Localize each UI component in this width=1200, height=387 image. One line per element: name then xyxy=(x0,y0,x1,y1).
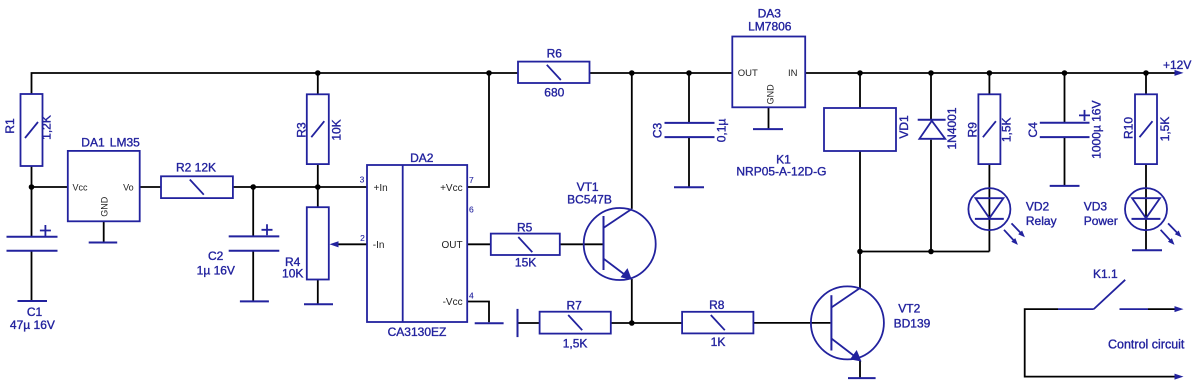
node VT1 collector on rail xyxy=(629,70,635,76)
node VD1 on rail xyxy=(928,70,934,76)
ground bar VT2 emitter xyxy=(848,377,876,379)
wire VT1 collector to rail xyxy=(631,73,633,209)
ground bar DA1 xyxy=(89,242,118,244)
svg-text:C4: C4 xyxy=(1026,122,1040,138)
wire +6V rail left segment xyxy=(32,73,519,94)
svg-text:1,5K: 1,5K xyxy=(1158,117,1172,142)
ground bar C2 xyxy=(240,300,269,302)
svg-text:VD1: VD1 xyxy=(897,115,911,139)
wire VD1 cathode to rail xyxy=(930,73,932,120)
svg-text:47µ 16V: 47µ 16V xyxy=(10,318,55,332)
wire node A to DA1 Vcc xyxy=(32,186,68,188)
wire R5 to VT1 base xyxy=(560,243,603,245)
wire DA2 pin4 to ground xyxy=(467,302,489,323)
op-amp DA2 body xyxy=(367,165,467,322)
svg-text:DA1: DA1 xyxy=(81,136,105,150)
node R3 top on rail xyxy=(315,70,321,76)
wire R2 to DA2 +In xyxy=(233,186,367,188)
svg-text:4: 4 xyxy=(469,290,474,300)
svg-text:7: 7 xyxy=(469,175,474,185)
wire C4 bottom to ground xyxy=(1064,137,1066,186)
svg-text:IN: IN xyxy=(788,68,798,79)
transistor VT2 xyxy=(811,286,884,361)
svg-text:R5: R5 xyxy=(517,221,533,235)
node C4 on rail xyxy=(1062,70,1068,76)
svg-text:1µ 16V: 1µ 16V xyxy=(197,263,235,277)
capacitor C1 xyxy=(7,225,58,251)
node R10 on rail xyxy=(1143,70,1149,76)
wire VT2 collector xyxy=(859,252,861,289)
node R3/R4 divider xyxy=(315,184,321,190)
resistor R7 xyxy=(540,312,611,334)
svg-text:+12V: +12V xyxy=(1163,58,1191,72)
svg-text:DA3: DA3 xyxy=(758,7,782,21)
svg-text:Control circuit: Control circuit xyxy=(1108,337,1185,351)
potentiometer R4 xyxy=(307,207,329,279)
resistor R3 xyxy=(307,94,329,164)
arrow K1.1 top lead xyxy=(1175,306,1184,312)
wire K1 top to rail xyxy=(859,73,861,108)
wire K1.1 contact left and lower loop xyxy=(1025,309,1176,377)
svg-text:10K: 10K xyxy=(282,267,303,281)
svg-text:1000µ 16V: 1000µ 16V xyxy=(1089,101,1103,159)
ground bar C3 xyxy=(674,186,704,188)
svg-text:R8: R8 xyxy=(709,298,725,312)
wire C3 bottom to ground xyxy=(688,137,690,187)
R4 wiper arrow xyxy=(330,241,339,247)
svg-text:R3: R3 xyxy=(295,122,309,138)
wire C1 bottom to ground xyxy=(31,251,33,301)
svg-text:R6: R6 xyxy=(547,46,563,60)
svg-text:+In: +In xyxy=(374,183,388,194)
resistor R10 xyxy=(1135,94,1157,164)
wire R10 top to rail xyxy=(1145,73,1147,94)
svg-text:LM35: LM35 xyxy=(110,136,140,150)
wire VT2 emitter to ground xyxy=(859,361,861,379)
wire +6V rail right of R6 xyxy=(590,72,733,74)
wire R4 bottom to ground xyxy=(317,280,319,305)
wire VT1 emitter down to node B xyxy=(631,279,633,323)
wire DA2 OUT to R5 xyxy=(467,243,491,245)
wire K1 bottom to bus xyxy=(859,151,861,252)
wire R9 bottom through VD2 to bus xyxy=(988,164,990,251)
node DA2 pin7 on rail xyxy=(486,70,492,76)
svg-text:R10: R10 xyxy=(1121,117,1135,139)
relay K1 coil xyxy=(824,108,896,151)
wire C4 top to rail xyxy=(1064,73,1066,123)
LED VD3 xyxy=(1125,188,1182,245)
svg-text:Vcc: Vcc xyxy=(73,183,89,193)
wire VD1 anode to bus xyxy=(930,140,932,252)
resistor R1 xyxy=(21,94,43,166)
svg-text:LM7806: LM7806 xyxy=(748,20,792,34)
resistor R8 xyxy=(682,312,753,334)
svg-text:-Vcc: -Vcc xyxy=(443,297,463,308)
wire R8 to VT2 base xyxy=(753,322,830,324)
resistor R2 xyxy=(161,176,233,198)
wire DA3 GND pin xyxy=(768,107,770,129)
wire R3 top to rail xyxy=(317,73,319,94)
diode VD1 xyxy=(918,120,946,139)
wire C2 bottom to ground xyxy=(252,251,254,302)
svg-text:OUT: OUT xyxy=(441,240,462,251)
svg-text:Relay: Relay xyxy=(1026,214,1057,228)
wire C3 top to rail xyxy=(688,73,690,123)
wire R1 bottom to node A and C1 xyxy=(31,166,33,237)
svg-text:K1.1: K1.1 xyxy=(1093,267,1118,281)
wire C2 top xyxy=(252,187,254,236)
svg-text:VD2: VD2 xyxy=(1026,199,1050,213)
svg-text:VD3: VD3 xyxy=(1084,199,1108,213)
wire R3 bottom to R4 top xyxy=(317,164,319,207)
svg-text:R7: R7 xyxy=(567,298,583,312)
svg-text:R2 12K: R2 12K xyxy=(176,161,216,175)
svg-text:3: 3 xyxy=(360,175,365,185)
wire R9 top to rail xyxy=(988,73,990,94)
svg-text:15K: 15K xyxy=(515,255,536,269)
arrow +12V rail end xyxy=(1175,70,1184,76)
wire relay bus xyxy=(860,251,989,253)
svg-text:Power: Power xyxy=(1084,214,1118,228)
svg-text:R1: R1 xyxy=(3,118,17,134)
wire +12V rail xyxy=(805,72,1176,74)
resistor R6 xyxy=(518,62,590,83)
svg-text:BD139: BD139 xyxy=(894,317,931,331)
svg-text:-In: -In xyxy=(373,240,385,251)
svg-text:Vo: Vo xyxy=(123,183,134,193)
node K1 on rail xyxy=(857,70,863,76)
ground bar R7 left (vertical) xyxy=(517,309,519,337)
svg-text:GND: GND xyxy=(766,84,776,105)
switch contact K1.1 xyxy=(1058,280,1148,309)
LED VD2 xyxy=(968,188,1025,245)
capacitor C3 xyxy=(665,123,715,137)
svg-text:R9: R9 xyxy=(965,122,979,138)
wire DA2 -In to R4 wiper xyxy=(334,243,367,245)
wire DA1 GND pin xyxy=(103,221,105,242)
node VT2 collector on bus xyxy=(857,249,863,255)
svg-text:DA2: DA2 xyxy=(410,151,434,165)
node B emitter/R7/R8 xyxy=(629,320,635,326)
ground bar R4 xyxy=(304,303,333,305)
svg-text:GND: GND xyxy=(100,196,110,217)
resistor R9 xyxy=(978,94,1000,164)
node C3 on rail xyxy=(686,70,692,76)
svg-text:BC547B: BC547B xyxy=(567,193,612,207)
svg-text:0,1µ: 0,1µ xyxy=(715,119,729,143)
svg-text:6: 6 xyxy=(469,205,474,215)
node R1/C1/DA1 xyxy=(29,184,35,190)
svg-text:CA3130EZ: CA3130EZ xyxy=(388,325,447,339)
ground bar VD3 xyxy=(1132,249,1162,251)
svg-text:680: 680 xyxy=(544,85,564,99)
svg-text:1,5K: 1,5K xyxy=(563,336,588,350)
wire DA2 pin7 to rail xyxy=(467,73,489,187)
capacitor C2 xyxy=(229,224,280,250)
svg-text:VT2: VT2 xyxy=(898,302,920,316)
svg-text:1K: 1K xyxy=(711,335,726,349)
wire R7 left terminal xyxy=(518,322,540,324)
capacitor C4 xyxy=(1040,110,1090,137)
svg-text:NRP05-A-12D-G: NRP05-A-12D-G xyxy=(736,165,826,179)
ground bar DA3 xyxy=(753,128,783,130)
ground bar C4 xyxy=(1050,185,1080,187)
node VD1 on bus xyxy=(928,249,934,255)
ground bar DA2 pin4 xyxy=(475,322,504,324)
IC DA1 LM35 body xyxy=(68,151,140,221)
svg-text:2: 2 xyxy=(360,233,365,243)
svg-text:C2: C2 xyxy=(208,249,224,263)
svg-text:1,2K: 1,2K xyxy=(40,115,54,140)
svg-text:1,5K: 1,5K xyxy=(999,117,1013,142)
node R9 on rail xyxy=(987,70,993,76)
wire R10 bottom through VD3 to ground xyxy=(1145,164,1147,250)
wire DA1 Vo to R2 xyxy=(140,186,161,188)
transistor VT1 xyxy=(584,208,656,280)
node C2 tap xyxy=(250,184,256,190)
svg-text:OUT: OUT xyxy=(738,68,758,79)
arrow K1.1 bottom lead xyxy=(1175,374,1184,380)
resistor R5 xyxy=(491,234,560,255)
svg-text:+Vcc: +Vcc xyxy=(440,183,463,194)
svg-text:1N4001: 1N4001 xyxy=(945,107,959,149)
wire K1.1 contact right lead xyxy=(1148,308,1176,310)
svg-text:10K: 10K xyxy=(330,119,344,140)
svg-text:C3: C3 xyxy=(651,123,665,139)
wire node B to R8 xyxy=(611,322,682,324)
ground bar C1 xyxy=(18,300,48,302)
regulator DA3 body xyxy=(732,37,805,108)
